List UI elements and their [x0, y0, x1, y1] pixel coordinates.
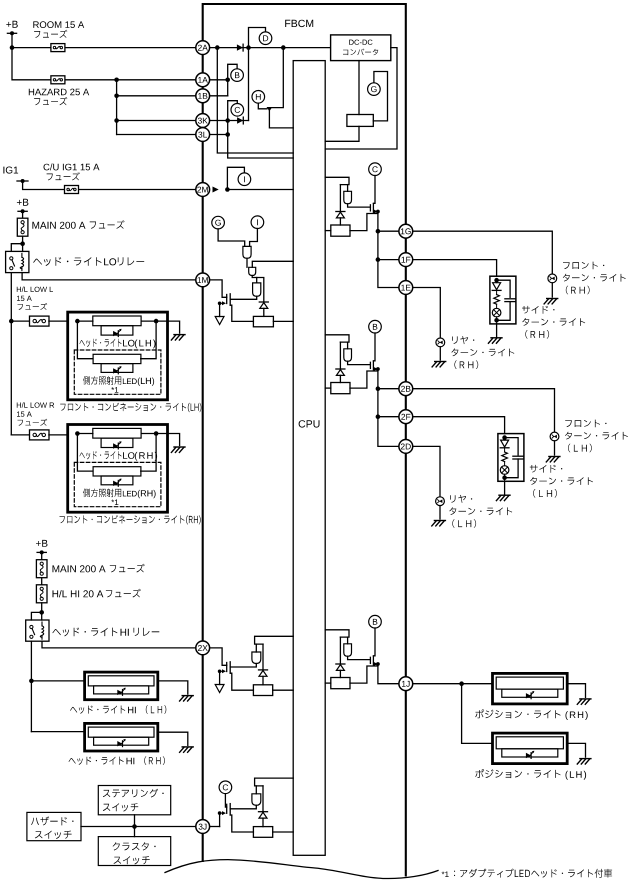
ground — [496, 495, 510, 500]
wire to ground — [141, 433, 156, 435]
fuse symbol — [65, 186, 79, 194]
gate buffer — [344, 349, 352, 362]
FBCM pin 2F — [399, 410, 413, 424]
junction — [502, 475, 507, 480]
junction — [21, 179, 25, 183]
resistor zigzag — [494, 295, 500, 305]
1G wire to front turn RH — [413, 231, 553, 274]
junction — [154, 431, 159, 436]
wire 1A-1B join — [227, 80, 229, 96]
drain wire — [373, 176, 375, 204]
steering switch box — [98, 786, 170, 815]
junction — [20, 241, 25, 246]
hook node G (DC-DC) — [373, 72, 387, 121]
FBCM pin 1B — [196, 89, 210, 103]
+B battery terminal — [36, 540, 48, 547]
node B — [369, 320, 382, 333]
fuse symbol — [36, 560, 47, 578]
zener diode — [259, 811, 268, 813]
MOSFET — [369, 362, 371, 368]
wire to ground — [567, 743, 585, 757]
LED lamp unit — [496, 677, 563, 689]
junction — [40, 550, 44, 554]
source wire down — [378, 212, 399, 288]
fuse symbol — [30, 430, 50, 440]
junction — [75, 431, 80, 436]
ground — [171, 335, 185, 340]
resistor — [253, 316, 273, 326]
1J wire to position lights — [413, 683, 493, 685]
+B battery terminal — [17, 199, 29, 206]
signal ground — [215, 685, 224, 693]
junction — [459, 681, 464, 686]
signal ground — [219, 303, 221, 316]
gate buffer — [344, 191, 352, 204]
lamp: rear turn RH — [439, 347, 441, 360]
node I — [238, 173, 251, 186]
resistor (DC-DC sense) — [347, 115, 373, 127]
junction — [246, 45, 251, 50]
LED lamp unit — [88, 676, 154, 686]
gate buffer — [252, 652, 261, 664]
input from CPU — [325, 630, 349, 637]
node G — [212, 216, 225, 229]
wires to LED lamp — [77, 434, 93, 472]
bulb — [500, 466, 509, 475]
FBCM pin 2D — [399, 440, 413, 454]
2B wire to front turn LH — [413, 389, 555, 432]
side turn light (LH) — [498, 434, 524, 482]
signal ground — [215, 317, 224, 325]
wire to ground — [141, 320, 156, 322]
junction — [114, 118, 119, 123]
resistor wires — [273, 831, 294, 833]
junction — [281, 45, 286, 50]
wire 2M to CPU — [227, 189, 293, 191]
dashed adaptive LED section — [74, 350, 161, 394]
junction — [9, 319, 14, 324]
wire + CPU input join — [246, 258, 248, 267]
wire switch to HI lamps — [30, 641, 32, 731]
signal direction arrow — [213, 187, 219, 193]
resistor — [253, 685, 272, 696]
fuse symbol — [30, 316, 50, 326]
headlamp HI (RH) — [85, 723, 158, 751]
junction — [114, 94, 119, 99]
wire 2A down to 3K diode rail — [248, 48, 250, 121]
capacitor branch — [497, 280, 511, 297]
CPU — [293, 61, 325, 856]
MOSFET — [226, 663, 228, 672]
junction — [29, 679, 34, 684]
FBCM pin 1M — [196, 273, 210, 287]
source wire down — [378, 369, 399, 446]
wire to ground — [158, 681, 188, 694]
junction — [494, 278, 499, 283]
1F wire to side turn RH — [413, 260, 497, 277]
fuse H/L LOW L 15A — [11, 320, 29, 322]
junction — [10, 31, 14, 35]
wire to HI relay — [41, 603, 43, 620]
junction — [132, 824, 137, 829]
FBCM pin 2X — [196, 641, 210, 655]
zener diode — [336, 211, 345, 213]
node I — [251, 216, 264, 229]
FBCM pin 2B — [399, 382, 413, 396]
LED lamp unit — [93, 316, 141, 326]
ground lead — [496, 320, 498, 324]
gate buffer — [344, 644, 352, 657]
drain wire — [373, 628, 375, 656]
ground — [171, 447, 185, 452]
source to 3J — [219, 813, 221, 826]
LED — [493, 283, 501, 290]
bulb — [436, 497, 445, 506]
wire relay switch down to fuses — [10, 273, 12, 435]
junction — [376, 367, 380, 371]
1A/1B/3K/3L internal stubs — [210, 79, 228, 81]
bulb — [550, 432, 559, 441]
ground — [577, 699, 591, 704]
headlamp HI (LH) — [85, 672, 158, 700]
side turn light (RH) — [490, 276, 516, 324]
ground — [432, 521, 446, 526]
zener — [262, 786, 264, 812]
junction — [218, 670, 222, 674]
zener tap — [257, 278, 264, 303]
ground — [546, 457, 560, 462]
footnote *1 — [442, 872, 449, 878]
input from CPU — [255, 778, 294, 786]
LED lamp unit — [93, 467, 141, 476]
LED lamp unit — [93, 354, 141, 363]
wire — [22, 211, 24, 218]
gate buffer — [252, 794, 261, 806]
input from CPU — [325, 335, 349, 342]
wire relay coil to 1M — [22, 273, 196, 280]
junction — [39, 610, 44, 615]
wire to ground — [567, 684, 585, 698]
input from CPU — [325, 177, 349, 184]
junction — [218, 302, 222, 306]
position light (LH) — [493, 733, 568, 764]
LED lamp unit — [88, 727, 154, 737]
FBCM pin 1J — [399, 677, 413, 691]
ground — [544, 299, 558, 304]
cluster switch box — [98, 837, 170, 866]
signal ground — [219, 671, 221, 684]
node B — [231, 69, 244, 82]
FBCM module outline — [203, 4, 406, 876]
diode — [237, 44, 243, 50]
bulb — [436, 338, 445, 347]
gate buffer — [249, 267, 256, 275]
relay: contact + coil — [6, 251, 29, 272]
position light (RH) — [493, 673, 568, 704]
relay: contact + coil — [26, 620, 49, 641]
wire to 1B 3K 3L — [116, 80, 118, 135]
zener diode — [259, 301, 268, 303]
resistor — [331, 678, 350, 689]
LED — [501, 440, 509, 447]
gate buffer — [243, 246, 251, 258]
FBCM pin 3K — [196, 114, 210, 128]
junction — [225, 187, 230, 192]
wire fuse to relay, branch — [22, 236, 24, 251]
junction — [376, 210, 380, 214]
lamp: front turn LH — [554, 441, 556, 455]
wires to 3J — [134, 815, 136, 837]
hazard switch box — [27, 812, 81, 840]
wire 3K/3L join to CPU — [228, 121, 294, 159]
1E wire to rear turn RH — [413, 288, 441, 339]
zener — [339, 342, 341, 369]
ground lead — [504, 478, 506, 482]
gate lead to MOSFET — [230, 296, 256, 299]
+B battery terminal — [6, 21, 17, 28]
zener — [339, 637, 341, 664]
DC-DC output loop to CPU — [325, 48, 397, 149]
junction — [21, 209, 25, 213]
junction — [10, 45, 15, 50]
FBCM pin 1E — [399, 281, 413, 295]
junction — [218, 811, 222, 815]
wire 2A feed — [12, 47, 196, 49]
wire +B to 2A line and HAZARD line — [12, 33, 196, 80]
fuse symbol — [36, 585, 47, 603]
2A internal rail — [210, 47, 331, 49]
drain wire — [373, 333, 375, 361]
bulb — [492, 308, 501, 317]
MOSFET — [226, 804, 228, 813]
lamp: front turn RH — [551, 283, 553, 297]
resistor wires — [273, 689, 294, 691]
2X low-side driver — [210, 648, 227, 665]
MOSFET — [369, 657, 371, 663]
resistor zigzag — [502, 452, 508, 462]
wires to LED lamp — [77, 321, 93, 359]
node B — [369, 615, 382, 628]
junction — [225, 118, 230, 123]
wire 2A to CPU — [217, 48, 293, 153]
junction — [502, 435, 507, 440]
LED lamp unit — [93, 428, 141, 438]
FBCM pin 1G — [399, 224, 413, 238]
resistor — [253, 827, 272, 838]
lamp: rear turn LH — [439, 506, 441, 519]
diode — [237, 117, 243, 123]
junction — [376, 257, 381, 262]
front combination light (LH) box — [68, 312, 168, 400]
front combination light (RH) box — [68, 425, 168, 513]
zener diode — [259, 669, 268, 671]
node H — [252, 91, 265, 104]
junction — [376, 414, 381, 419]
junction — [376, 229, 381, 234]
junction — [114, 78, 119, 83]
gate buffer — [253, 283, 261, 296]
wire to ground — [158, 732, 188, 745]
FBCM bottom wavy cut line — [165, 860, 438, 879]
ground — [432, 362, 446, 367]
bulb — [548, 274, 557, 283]
junction — [215, 45, 220, 50]
zener — [339, 185, 341, 212]
DC-DC converter — [331, 35, 391, 61]
zener diode — [336, 368, 345, 370]
junction — [154, 319, 159, 324]
fuse symbol — [51, 76, 65, 84]
input from CPU — [255, 636, 294, 644]
ground — [180, 747, 194, 752]
zener — [262, 644, 264, 670]
DC-DC to resistor — [358, 61, 360, 115]
FBCM pin 2M — [196, 183, 210, 197]
FBCM pin 3J — [196, 820, 210, 834]
ground — [577, 759, 591, 764]
source wire down — [378, 664, 399, 684]
junction — [494, 318, 499, 323]
junction — [75, 319, 80, 324]
FBCM pin 1A — [196, 73, 210, 87]
ground — [488, 338, 502, 343]
LED lamp unit — [496, 737, 563, 749]
ground — [180, 696, 194, 701]
IG1 feed — [3, 167, 18, 174]
node C — [231, 104, 244, 117]
MOSFET — [369, 205, 371, 211]
fuse symbol — [51, 44, 65, 52]
hook node I (2M) — [227, 167, 244, 189]
resistor — [331, 225, 350, 236]
junction — [376, 662, 380, 666]
node C — [369, 163, 382, 176]
hook node D — [249, 28, 266, 48]
MOSFET Q (1M driver) — [210, 280, 227, 297]
node C — [219, 781, 232, 794]
junction — [376, 386, 381, 391]
wire to gate A3 — [252, 276, 257, 283]
capacitor branch — [505, 438, 518, 455]
fuse H/L LOW R 15A — [11, 434, 29, 436]
2F wire to side turn LH — [413, 417, 505, 434]
node D — [259, 32, 272, 45]
junction — [225, 132, 230, 137]
wire coil to 2X — [42, 641, 196, 648]
junction — [225, 78, 230, 83]
gate chain wires — [218, 229, 245, 247]
resistor — [331, 383, 350, 394]
dashed adaptive LED section — [74, 462, 161, 506]
fuse symbol — [17, 218, 28, 236]
node G — [368, 83, 381, 96]
2D wire to rear turn LH — [413, 446, 440, 496]
FBCM pin 1F — [399, 253, 413, 267]
zener diode — [336, 663, 345, 665]
FBCM pin 2A — [196, 41, 210, 55]
FBCM pin 3L — [196, 128, 210, 142]
